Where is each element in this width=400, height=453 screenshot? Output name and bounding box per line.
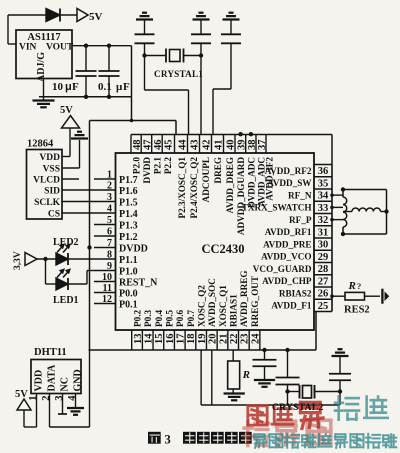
svg-text:3: 3: [165, 433, 171, 447]
svg-text:26: 26: [318, 289, 329, 300]
svg-text:P0.5: P0.5: [164, 309, 174, 327]
svg-text:17: 17: [176, 334, 187, 345]
svg-text:P0.0: P0.0: [119, 289, 138, 300]
svg-text:P2.4/XOSC_Q2: P2.4/XOSC_Q2: [189, 157, 199, 219]
svg-text:VSS: VSS: [43, 165, 60, 175]
svg-text:5V: 5V: [89, 11, 103, 23]
svg-text:VLCD: VLCD: [33, 176, 60, 186]
svg-text:CC2430: CC2430: [201, 242, 244, 256]
svg-text:P1.5: P1.5: [119, 198, 138, 209]
svg-text:5: 5: [107, 215, 112, 226]
svg-text:DVDD: DVDD: [119, 244, 148, 255]
svg-text:CRYSTAL2: CRYSTAL2: [272, 403, 324, 413]
svg-text:RES2: RES2: [344, 305, 370, 316]
svg-text:36: 36: [318, 166, 329, 177]
svg-text:P0.1: P0.1: [119, 300, 138, 311]
svg-text:?: ?: [357, 281, 361, 291]
svg-text:GND: GND: [73, 369, 84, 391]
svg-text:23: 23: [240, 334, 251, 345]
svg-text:0.1: 0.1: [98, 81, 112, 93]
svg-text:XOSC_Q1: XOSC_Q1: [218, 285, 228, 327]
svg-text:41: 41: [213, 140, 224, 151]
svg-text:3: 3: [107, 192, 112, 203]
svg-text:NC: NC: [60, 377, 71, 391]
svg-text:AVDD_CHP: AVDD_CHP: [262, 276, 312, 286]
svg-text:48: 48: [132, 140, 143, 151]
svg-text:ADJ/G: ADJ/G: [36, 52, 47, 82]
svg-text:37: 37: [257, 140, 268, 151]
svg-text:P1.3: P1.3: [119, 221, 138, 232]
svg-text:9: 9: [107, 261, 112, 272]
svg-text:19: 19: [197, 334, 208, 345]
svg-text:AS1117: AS1117: [27, 32, 60, 43]
svg-text:8: 8: [107, 250, 112, 261]
svg-text:20: 20: [208, 334, 219, 345]
svg-text:47: 47: [142, 140, 153, 151]
svg-text:12: 12: [102, 294, 112, 305]
svg-text:16: 16: [165, 334, 176, 345]
svg-text:1: 1: [107, 170, 112, 181]
svg-text:F: F: [72, 81, 79, 93]
svg-text:F: F: [123, 81, 130, 93]
svg-text:P1.2: P1.2: [119, 232, 138, 243]
svg-text:3,3V: 3,3V: [13, 251, 23, 270]
svg-text:RREG_OUT: RREG_OUT: [250, 276, 260, 327]
svg-text:1: 1: [28, 396, 39, 401]
svg-text:5V: 5V: [60, 105, 73, 116]
svg-text:μ: μ: [116, 81, 123, 93]
svg-text:24: 24: [250, 333, 261, 344]
svg-text:28: 28: [318, 264, 329, 275]
svg-text:CRYSTAL1: CRYSTAL1: [154, 69, 203, 79]
svg-text:21: 21: [218, 334, 229, 345]
svg-text:30: 30: [318, 240, 329, 251]
svg-text:27: 27: [318, 276, 329, 287]
svg-text:11: 11: [103, 283, 112, 294]
svg-text:12864: 12864: [27, 139, 54, 150]
svg-text:2: 2: [107, 181, 112, 192]
svg-text:P0.2: P0.2: [132, 309, 142, 327]
svg-text:44: 44: [177, 139, 188, 150]
svg-text:AVDD_PRE: AVDD_PRE: [263, 239, 311, 249]
svg-text:5V: 5V: [15, 389, 28, 400]
svg-text:DVDD: DVDD: [142, 157, 152, 184]
svg-text:P0.7: P0.7: [186, 309, 196, 327]
svg-text:LED1: LED1: [53, 295, 79, 306]
svg-text:LED2: LED2: [53, 237, 79, 248]
svg-text:AVDD_VCO: AVDD_VCO: [261, 252, 311, 262]
svg-text:DHT11: DHT11: [34, 347, 67, 358]
svg-text:6: 6: [107, 227, 112, 238]
svg-text:13: 13: [133, 334, 144, 345]
svg-text:43: 43: [189, 140, 200, 151]
svg-text:P2.2: P2.2: [163, 157, 173, 175]
svg-text:AVDD_SOC: AVDD_SOC: [207, 278, 217, 327]
svg-text:P1.6: P1.6: [119, 186, 138, 197]
svg-text:VDD: VDD: [34, 370, 45, 392]
svg-text:P1.0: P1.0: [119, 267, 138, 278]
svg-text:P2.0: P2.0: [131, 157, 141, 175]
svg-text:39: 39: [236, 140, 247, 151]
svg-text:CS: CS: [48, 210, 60, 220]
svg-text:45: 45: [163, 140, 174, 151]
svg-text:RF_P: RF_P: [289, 215, 312, 225]
svg-text:REST_N: REST_N: [119, 278, 158, 289]
svg-text:μ: μ: [65, 81, 72, 93]
svg-text:33: 33: [318, 203, 329, 214]
svg-text:14: 14: [144, 333, 155, 344]
svg-text:P1.4: P1.4: [119, 209, 138, 220]
svg-text:4: 4: [107, 204, 112, 215]
svg-text:15: 15: [154, 334, 165, 345]
svg-text:22: 22: [229, 334, 240, 345]
svg-text:40: 40: [225, 140, 236, 151]
svg-text:P0.3: P0.3: [143, 309, 153, 327]
svg-text:VDD: VDD: [39, 153, 60, 163]
svg-text:VOUT: VOUT: [46, 43, 74, 53]
svg-text:P1.1: P1.1: [119, 255, 138, 266]
svg-text:46: 46: [153, 140, 164, 151]
svg-text:SCLK: SCLK: [34, 198, 60, 208]
svg-text:AVDD_DREG: AVDD_DREG: [225, 157, 235, 214]
svg-text:7: 7: [107, 238, 112, 249]
svg-text:18: 18: [186, 334, 197, 345]
svg-text:XOSC_Q2: XOSC_Q2: [197, 285, 207, 327]
svg-text:RBIAS2: RBIAS2: [279, 288, 312, 298]
svg-text:32: 32: [318, 215, 329, 226]
svg-text:2: 2: [41, 396, 52, 401]
svg-text:VIN: VIN: [19, 43, 37, 53]
svg-text:4: 4: [67, 395, 78, 401]
svg-text:R: R: [242, 369, 250, 381]
svg-text:AVDD_F1: AVDD_F1: [271, 301, 312, 311]
svg-text:ADCOUPL: ADCOUPL: [201, 157, 211, 202]
svg-text:AVDD_RF1: AVDD_RF1: [265, 227, 312, 237]
svg-text:42: 42: [201, 140, 212, 151]
svg-text:25: 25: [318, 301, 329, 312]
svg-text:AVDD_IF2: AVDD_IF2: [265, 157, 275, 201]
svg-text:RF_N: RF_N: [288, 190, 312, 200]
svg-text:10: 10: [102, 272, 112, 283]
svg-text:3: 3: [54, 396, 65, 401]
svg-text:AVDD_RREG: AVDD_RREG: [239, 271, 249, 328]
svg-text:P0.4: P0.4: [154, 309, 164, 327]
svg-text:RBIAS1: RBIAS1: [229, 294, 239, 327]
svg-text:P1.7: P1.7: [119, 175, 138, 186]
svg-text:SID: SID: [44, 187, 60, 197]
svg-text:ADVDD_DGUARD: ADVDD_DGUARD: [236, 157, 246, 235]
svg-text:10: 10: [52, 81, 64, 93]
svg-text:31: 31: [318, 227, 329, 238]
svg-text:R: R: [348, 280, 356, 292]
svg-text:29: 29: [318, 252, 329, 263]
svg-text:DATA: DATA: [47, 364, 58, 392]
svg-text:P2.3/XOSC_Q1: P2.3/XOSC_Q1: [177, 157, 187, 219]
svg-text:VCO_GUARD: VCO_GUARD: [253, 264, 312, 274]
svg-text:DREG: DREG: [213, 157, 223, 184]
svg-text:34: 34: [318, 191, 329, 202]
svg-text:P2.1: P2.1: [152, 157, 162, 175]
svg-text:DVDD_ADC: DVDD_ADC: [246, 157, 256, 208]
svg-text:P0.6: P0.6: [175, 309, 185, 327]
svg-text:35: 35: [318, 178, 329, 189]
